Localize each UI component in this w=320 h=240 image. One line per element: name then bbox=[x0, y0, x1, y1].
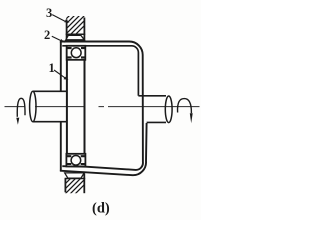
centerline (horizontal axis, dash-dot) bbox=[5, 106, 200, 108]
bearing bottom (box) bbox=[66, 154, 85, 167]
bearing top ball bbox=[71, 48, 81, 58]
leader line 3 bbox=[52, 15, 69, 23]
sleeve column (item 1) right edge bbox=[84, 46, 86, 167]
housing cup left wall lower bbox=[60, 122, 62, 171]
rotation arrow right bbox=[178, 99, 193, 124]
stub shaft right: top and bottom lines bbox=[138, 96, 166, 123]
leader line 2 bbox=[52, 36, 65, 42]
retaining collar bottom (trapezoid) bbox=[65, 173, 85, 178]
shaft left cylinder bbox=[33, 91, 67, 121]
retaining collar top (item 2, trapezoid) bbox=[66, 35, 84, 39]
bearing top races bbox=[67, 48, 86, 57]
bearing bottom ball bbox=[71, 156, 81, 166]
wall block hatched bottom bbox=[54, 167, 102, 195]
svg-text:3: 3 bbox=[46, 6, 52, 20]
stub shaft right end ellipse bbox=[165, 96, 172, 123]
housing cup inner top line bbox=[62, 46, 138, 96]
shaft left end ellipse bbox=[30, 91, 36, 121]
housing cup left wall upper bbox=[60, 41, 62, 92]
bearing top (box) bbox=[67, 46, 86, 60]
svg-text:(d): (d) bbox=[92, 200, 110, 216]
bearing bottom races bbox=[66, 156, 85, 164]
wall block hatched top (item 3) bbox=[45, 14, 96, 41]
leader line 1 bbox=[54, 70, 69, 80]
housing cup outer top and right (through stub) and inner-bottom bbox=[61, 42, 143, 170]
svg-text:1: 1 bbox=[49, 61, 55, 75]
sleeve column (item 1) left edge bbox=[66, 46, 68, 167]
housing cup outer bottom (below stub) bbox=[60, 123, 147, 175]
svg-text:2: 2 bbox=[44, 28, 50, 42]
rotation arrow left bbox=[16, 98, 25, 124]
